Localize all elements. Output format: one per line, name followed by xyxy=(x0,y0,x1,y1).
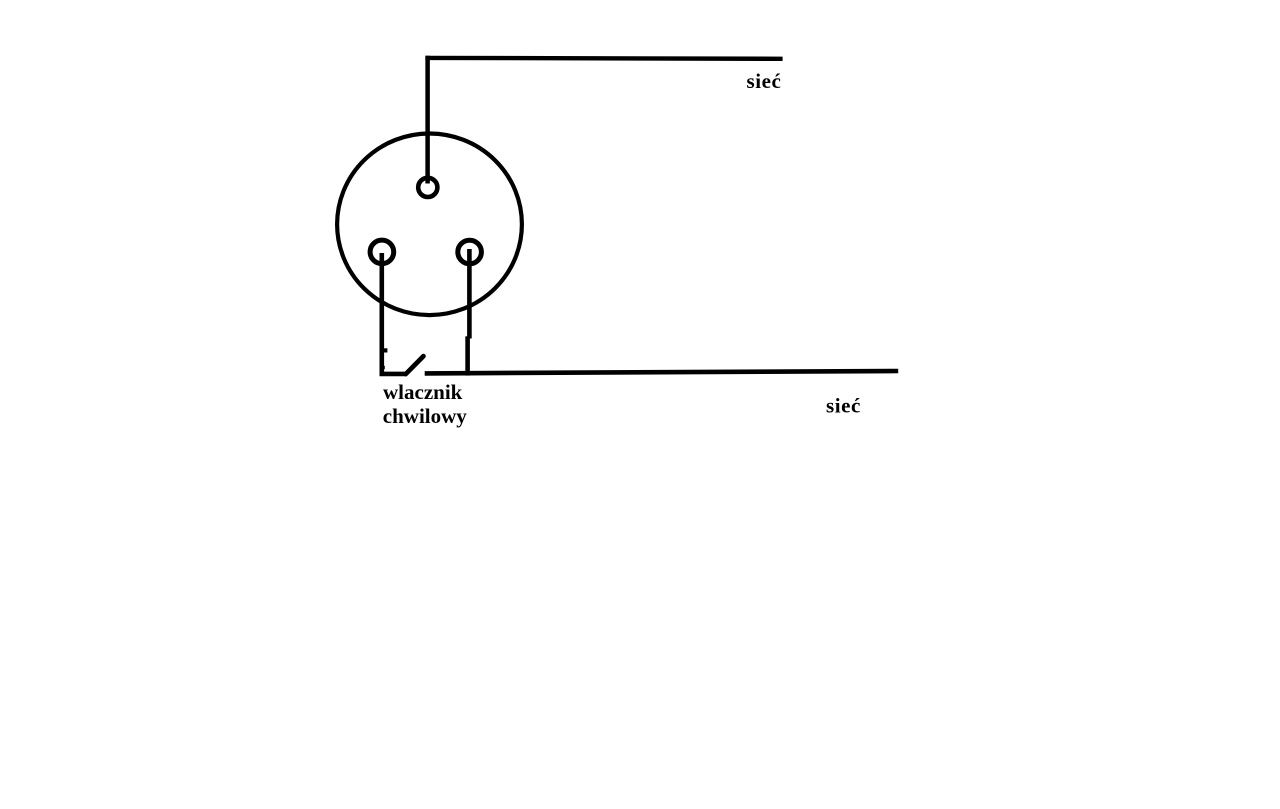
switch S1: fixed contact tick xyxy=(382,348,388,352)
wire: vertical from top pin up to mains corner xyxy=(425,56,430,184)
pin 1 (top pin circle) xyxy=(418,178,437,197)
switch S1: blade (momentary, open) xyxy=(406,356,424,374)
pin 2 (left pin circle) xyxy=(370,240,394,264)
connector body U1 (large circle) xyxy=(337,134,522,316)
pin 3 (right pin circle) xyxy=(458,240,482,264)
switch S1: small nub on wire xyxy=(382,366,385,369)
svg-text:sieć: sieć xyxy=(747,69,782,93)
wire: left pin down to switch xyxy=(379,253,384,376)
wire: top horizontal mains line xyxy=(425,56,782,61)
wire: right pin down (upper part) xyxy=(467,249,472,339)
svg-text:wlacznik: wlacznik xyxy=(383,380,463,404)
svg-text:sieć: sieć xyxy=(826,393,861,417)
wire: right pin down (lower part, jogged left) xyxy=(465,336,470,375)
wire: switch bottom-left short segment xyxy=(380,372,407,377)
svg-text:chwilowy: chwilowy xyxy=(383,404,468,428)
wire: bottom horizontal mains line xyxy=(425,371,899,373)
